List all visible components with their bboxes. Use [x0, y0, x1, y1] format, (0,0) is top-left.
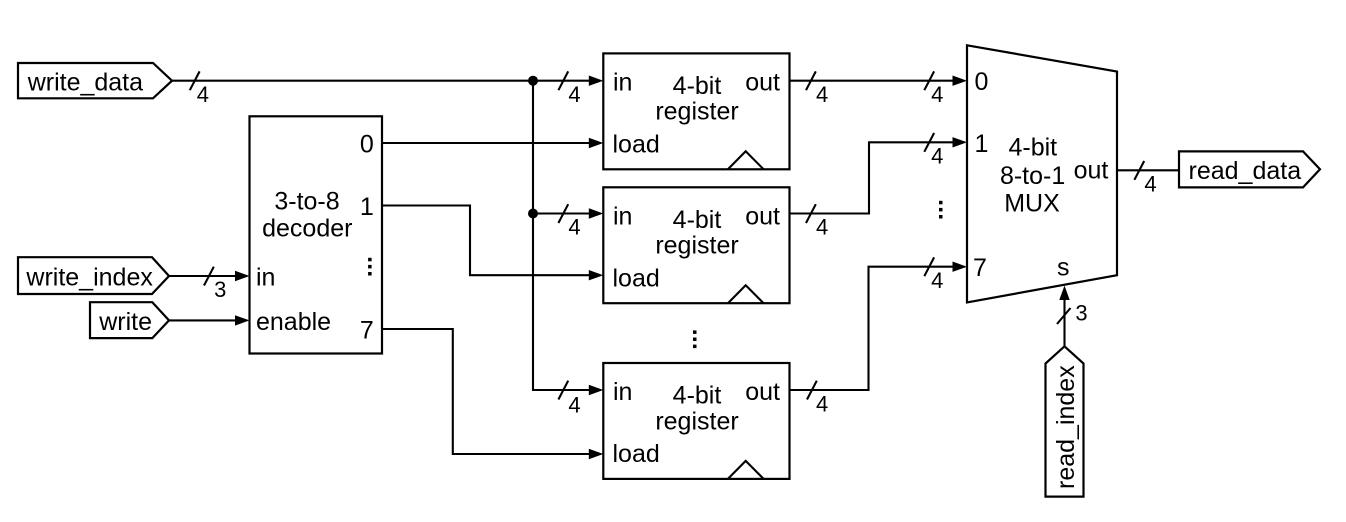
bus slash /3 on write_index wire	[204, 267, 226, 303]
mux 8-to-1 trapezoid	[967, 45, 1117, 302]
svg-text:4: 4	[197, 82, 209, 107]
decoder vertical ellipsis	[368, 258, 372, 276]
bus slash /4 at mux in1	[924, 133, 943, 169]
vertical bus wire down to reg7	[533, 81, 590, 390]
input flag write_data	[18, 63, 172, 98]
svg-text:4: 4	[816, 82, 828, 107]
svg-text:4-bit: 4-bit	[673, 206, 722, 234]
arrowhead into reg1 in	[589, 208, 604, 218]
svg-text:read_index: read_index	[1052, 365, 1080, 489]
svg-text:1: 1	[360, 193, 374, 221]
svg-text:4: 4	[1144, 172, 1156, 197]
arrowhead up into mux select	[1059, 286, 1069, 301]
ellipsis between register 1 and register 7	[693, 330, 697, 348]
svg-text:1: 1	[975, 130, 989, 158]
svg-text:out: out	[1074, 157, 1109, 185]
mux input vertical ellipsis	[939, 201, 943, 219]
wire reg1 out to mux in1	[790, 142, 954, 213]
svg-text:out: out	[745, 69, 780, 97]
svg-text:4-bit: 4-bit	[1008, 134, 1057, 162]
register 0 clock triangle	[728, 151, 764, 169]
svg-text:3: 3	[1075, 301, 1087, 326]
wire mux out to read_data	[1117, 169, 1179, 171]
svg-text:decoder: decoder	[262, 215, 352, 243]
svg-text:4: 4	[931, 268, 943, 293]
svg-text:s: s	[1057, 254, 1070, 282]
wire decoder out0 to reg0 load	[382, 142, 590, 144]
svg-text:read_data: read_data	[1189, 157, 1302, 185]
svg-text:out: out	[745, 378, 780, 406]
bus slash /4 at mux in7	[924, 257, 943, 293]
bus slash /4 after reg7 out	[807, 381, 828, 417]
svg-text:4: 4	[568, 82, 580, 107]
bus slash /4 at mux in0	[924, 71, 943, 107]
arrowhead into mux in1	[953, 137, 968, 147]
svg-text:8-to-1: 8-to-1	[1000, 162, 1065, 190]
svg-text:write_data: write_data	[27, 68, 143, 96]
bus slash /4 after write_data flag	[190, 71, 209, 107]
svg-text:in: in	[613, 378, 632, 406]
wire write to decoder enable	[169, 319, 236, 321]
arrowhead into reg0 load	[589, 138, 604, 148]
svg-text:register: register	[655, 407, 738, 435]
bus slash /4 after reg1 out	[806, 204, 828, 240]
arrowhead into decoder in	[235, 271, 250, 281]
svg-text:in: in	[613, 69, 632, 97]
svg-text:0: 0	[360, 131, 374, 159]
svg-text:load: load	[613, 440, 660, 468]
bus slash /4 at reg0 in	[558, 71, 580, 107]
svg-text:out: out	[745, 202, 780, 230]
svg-text:7: 7	[360, 317, 374, 345]
register 1 box	[603, 187, 789, 303]
wire write_data bus to register in column	[172, 80, 590, 82]
arrowhead into reg1 load	[589, 270, 604, 280]
wire decoder out1 to reg1 load	[382, 206, 590, 276]
input flag read_index (vertical)	[1046, 346, 1084, 496]
svg-text:4: 4	[816, 391, 828, 416]
svg-text:in: in	[613, 202, 632, 230]
wire decoder out7 to reg7 load	[382, 329, 590, 454]
wire write_index to decoder in	[169, 275, 236, 277]
svg-text:4-bit: 4-bit	[673, 382, 722, 410]
svg-text:0: 0	[975, 68, 989, 96]
wire reg0 out to mux in0	[790, 80, 954, 82]
junction dot node reg0 tap	[528, 76, 538, 86]
svg-text:4: 4	[931, 82, 943, 107]
junction dot node reg1 tap	[528, 209, 538, 219]
bus slash /4 at reg7 in	[558, 381, 580, 418]
svg-text:MUX: MUX	[1004, 190, 1060, 218]
register 7 box	[603, 363, 789, 479]
svg-text:enable: enable	[256, 308, 331, 336]
svg-text:register: register	[655, 232, 738, 260]
arrowhead into reg0 in	[589, 76, 604, 86]
svg-text:load: load	[613, 131, 660, 159]
wire read_index to mux select	[1063, 298, 1065, 346]
svg-text:4-bit: 4-bit	[673, 72, 722, 100]
svg-text:7: 7	[973, 254, 987, 282]
decoder 3-to-8 box	[250, 116, 383, 353]
bus slash /4 after reg0 out	[806, 71, 828, 107]
svg-text:3: 3	[214, 277, 226, 302]
svg-text:4: 4	[816, 215, 828, 240]
register 7 clock triangle	[728, 461, 764, 479]
bus slash /4 on mux out	[1134, 161, 1156, 197]
output flag read_data	[1179, 151, 1320, 187]
svg-text:register: register	[655, 98, 738, 126]
svg-text:in: in	[256, 264, 275, 292]
wire junction to reg1 in	[533, 212, 590, 214]
input flag write_index	[18, 257, 169, 294]
arrowhead into reg7 in	[589, 385, 604, 395]
arrowhead into decoder enable	[235, 315, 250, 325]
register 1 clock triangle	[728, 285, 764, 303]
svg-text:4: 4	[568, 215, 580, 240]
svg-text:load: load	[613, 264, 660, 292]
bus slash /4 at reg1 in	[558, 204, 580, 240]
svg-text:3-to-8: 3-to-8	[274, 188, 339, 216]
arrowhead into reg7 load	[589, 449, 604, 459]
svg-text:write: write	[98, 308, 152, 336]
register 0 box	[603, 53, 789, 169]
svg-text:4: 4	[568, 392, 580, 417]
svg-text:write_index: write_index	[25, 264, 153, 292]
wire reg7 out to mux in7	[790, 267, 954, 390]
svg-text:4: 4	[931, 144, 943, 169]
bus slash /3 on select wire	[1057, 301, 1088, 326]
arrowhead into mux in0	[953, 76, 968, 86]
input flag write	[90, 302, 169, 338]
arrowhead into mux in7	[953, 262, 968, 272]
